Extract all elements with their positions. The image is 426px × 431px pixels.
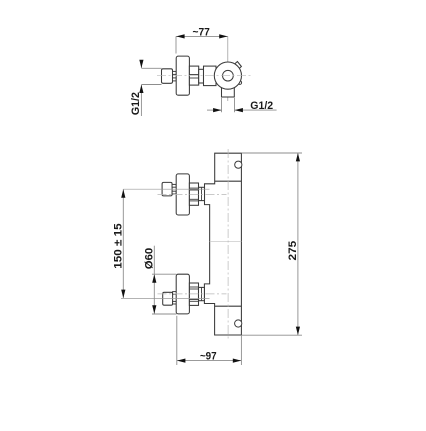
dimension Ø60 extension lines [152, 274, 176, 314]
upper union axis centerline [123, 188, 209, 190]
top wall-block bottom edge [215, 180, 242, 182]
lower cartridge axis centerline [158, 293, 227, 295]
valve vertical centerline (also ~77 right extension) [227, 36, 229, 101]
svg-text:275: 275 [287, 240, 299, 260]
left G1/2 extension lines [141, 68, 161, 84]
lower knob tip (wall union) [163, 292, 173, 305]
top mounting hole [235, 161, 242, 168]
column vertical centerline [227, 149, 229, 341]
upper cartridge axis centerline [158, 193, 227, 195]
upper knob nut ring 1 [189, 183, 198, 205]
top view handle tip (wall union) [162, 69, 173, 84]
valve body outer circle [214, 62, 241, 89]
valve cartridge inner circle [223, 70, 234, 81]
top view horizontal centerline [157, 75, 251, 77]
svg-text:~77: ~77 [193, 26, 210, 38]
lower knob nut ring 2 [199, 287, 205, 300]
dimension ~77 left extension line [175, 36, 177, 53]
top view nut ring 2 [199, 69, 204, 83]
dimension ~77 line [176, 34, 228, 38]
lower knob neck ridges [173, 292, 177, 304]
left G1/2 leader lower segment with up arrow [139, 85, 143, 116]
top view outlet spout [222, 87, 235, 98]
svg-text:G1/2: G1/2 [130, 92, 142, 115]
svg-text:150 ± 15: 150 ± 15 [113, 223, 125, 269]
dimension Ø60 leader line with arrows [152, 246, 156, 314]
dimension 275 extension lines [242, 153, 302, 335]
mixer column body outline [204, 153, 241, 335]
lower union axis centerline [121, 297, 210, 299]
top view handle disc [176, 56, 189, 95]
upper knob nut ring 2 [199, 187, 205, 200]
dimension ~97 extension lines [177, 316, 242, 365]
left G1/2 leader upper segment with down arrow [139, 60, 143, 68]
bottom wall-block top edge [215, 305, 242, 307]
outlet G1/2 extension lines [222, 98, 235, 112]
dimension ~97 line with arrows [177, 359, 242, 363]
top view handle neck ridges [173, 71, 177, 81]
valve body lower-right lug [238, 81, 242, 85]
upper knob disc [176, 174, 189, 215]
top view nut ring 1 [189, 66, 198, 85]
outlet G1/2 dimension line with arrows [207, 108, 277, 112]
dimension 275 line with arrows [296, 153, 300, 335]
column mid seam line [210, 241, 242, 243]
svg-text:Ø60: Ø60 [144, 248, 156, 269]
upper knob tip (wall union) [162, 182, 172, 196]
top view valve connector body [204, 66, 217, 86]
svg-text:~97: ~97 [200, 350, 217, 362]
lower knob disc [176, 274, 189, 314]
bottom mounting hole [235, 320, 242, 327]
svg-text:G1/2: G1/2 [250, 100, 273, 112]
upper knob neck ridges [172, 184, 176, 194]
lower knob nut ring 1 [189, 283, 198, 305]
dimension 150±15 line with arrows [121, 189, 125, 298]
valve body tab (top-right lug) [235, 62, 242, 70]
